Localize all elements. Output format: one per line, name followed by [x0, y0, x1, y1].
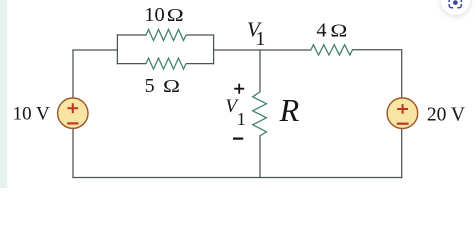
svg-text:Ω: Ω	[167, 6, 184, 25]
svg-text:4: 4	[316, 20, 326, 42]
wire left above 10V source	[72, 50, 74, 98]
20V minus sign	[397, 123, 409, 125]
svg-text:Ω: Ω	[330, 22, 347, 41]
lens button circle	[441, 0, 470, 15]
svg-text:10 V: 10 V	[13, 104, 50, 125]
resistor 10 ohm zigzag	[146, 30, 186, 41]
voltage source 20V circle	[387, 98, 418, 129]
20V plus sign	[397, 104, 408, 114]
resistor 4 ohm zigzag	[311, 45, 353, 55]
10V plus sign	[68, 103, 79, 113]
svg-text:Ω: Ω	[163, 77, 180, 96]
svg-text:10: 10	[144, 4, 165, 26]
wire top-right from 4-ohm to corner down to 20V	[352, 50, 401, 98]
wire top-left feed	[73, 49, 117, 51]
wire left below 10V source	[72, 128, 74, 177]
svg-text:R: R	[279, 92, 300, 128]
voltage source 10V circle	[58, 98, 88, 128]
lens icon frame corners	[449, 0, 461, 8]
svg-text:5: 5	[145, 75, 155, 97]
svg-text:20 V: 20 V	[427, 105, 465, 126]
resistor R zigzag	[253, 92, 267, 136]
plus polarity across R	[234, 84, 244, 94]
wire bottom	[73, 177, 402, 179]
wire parallel-box bottom edge segments	[117, 63, 213, 65]
wire parallel-box top edge segments	[117, 34, 213, 36]
wire right below 20V source	[401, 129, 403, 178]
resistor 5 ohm zigzag	[146, 58, 186, 69]
wire parallel-box left edge	[116, 35, 118, 64]
left page margin strip	[0, 0, 7, 188]
minus polarity across R	[233, 138, 243, 140]
wire R down to bottom	[259, 136, 261, 178]
svg-text:1: 1	[255, 28, 265, 50]
wire mid top from box to 4-ohm	[214, 49, 311, 51]
wire node V1 down to R	[259, 50, 261, 92]
lens icon drop	[453, 0, 458, 5]
10V minus sign	[67, 122, 78, 124]
svg-text:1: 1	[237, 109, 246, 129]
wire parallel-box right edge	[213, 35, 215, 64]
